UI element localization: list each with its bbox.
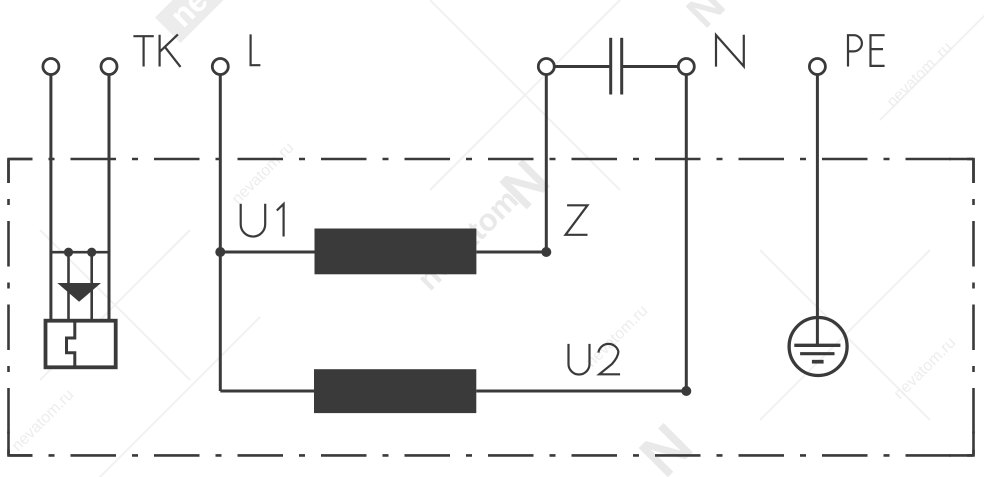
enclosure dash-dot border (9, 159, 974, 455)
label U1 (241, 204, 284, 237)
junction node U2-N (681, 386, 691, 396)
thermal protector contact step (67, 321, 75, 368)
wire N down (685, 75, 688, 392)
wire TK crossbar (51, 251, 109, 254)
terminal L (212, 59, 228, 75)
capacitor plate left (609, 38, 612, 95)
watermark band top-left (154, 0, 237, 43)
wire winding to Z (476, 251, 546, 254)
wire L down (219, 75, 222, 392)
winding U2 (314, 369, 476, 413)
label PE (848, 35, 885, 66)
label TK (133, 34, 180, 67)
wire winding U2 to N (476, 390, 686, 393)
terminal TK-2 (101, 59, 117, 75)
wire TK inner right (90, 252, 93, 321)
label U2 (569, 344, 621, 375)
label L (251, 34, 261, 65)
watermark logo center (410, 0, 734, 477)
capacitor plate right (620, 38, 623, 95)
wire L to winding U2 (220, 390, 314, 393)
wire Z up (545, 75, 548, 253)
thermal contact arrow (57, 283, 101, 302)
thermal protector box (46, 321, 116, 368)
junction node Z (541, 247, 551, 257)
terminal TK-1 (43, 59, 59, 75)
wire to capacitor (555, 65, 610, 68)
label N (716, 35, 744, 67)
wire capacitor to N (623, 65, 678, 68)
protective earth symbol (789, 318, 847, 376)
terminal N (678, 59, 694, 75)
junction dot TK right (87, 248, 96, 257)
wire TK-1 down (49, 75, 52, 321)
wire PE down (816, 75, 819, 346)
wire TK-2 down (108, 75, 111, 321)
winding U1-Z (315, 229, 477, 275)
terminal PE (809, 59, 825, 75)
label Z (566, 205, 588, 235)
terminal capacitor left (538, 59, 554, 75)
junction dot TK left (64, 248, 73, 257)
junction node U1 (215, 247, 225, 257)
wire TK inner left (67, 252, 70, 321)
wire U1 (220, 251, 314, 254)
